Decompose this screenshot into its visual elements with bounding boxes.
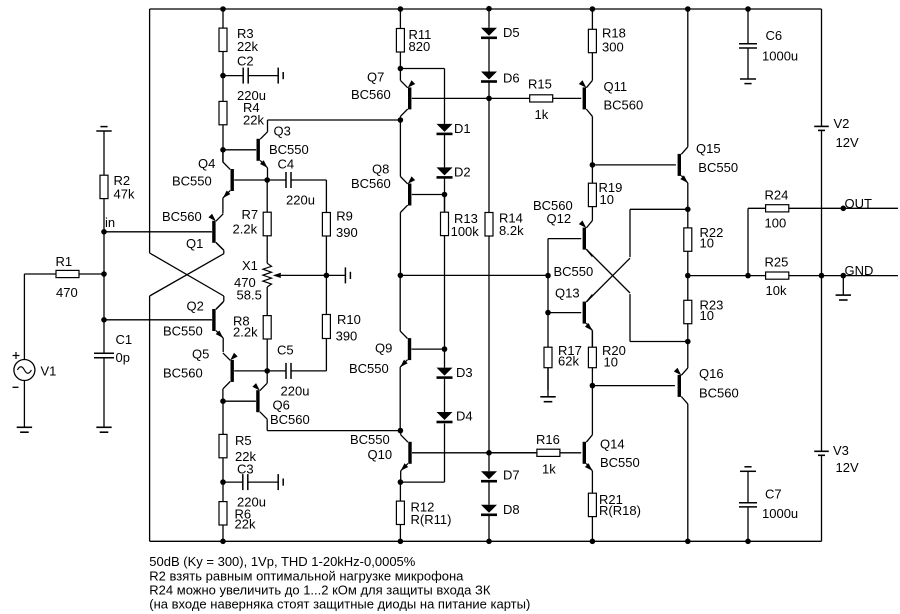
ground: [23, 381, 25, 428]
node Q5 collector to Q6 base wire: [223, 400, 256, 402]
wire mid rail to Q12/Q13 bases: [400, 274, 548, 276]
node C4/R7: [264, 177, 270, 183]
diode D2: [437, 167, 453, 175]
voltage source V2: [814, 125, 829, 127]
svg-text:R16: R16: [536, 432, 560, 447]
V1 plus mark: [13, 355, 20, 357]
capacitor C5: [267, 370, 286, 372]
svg-text:100k: 100k: [451, 224, 480, 239]
transistor Q3 BC550: [257, 139, 260, 161]
resistor R16: [489, 452, 537, 454]
resistor R7: [266, 180, 268, 212]
wire Q15 collector up to top rail: [687, 9, 689, 147]
svg-text:Q13: Q13: [555, 286, 580, 301]
svg-text:2.2k: 2.2k: [233, 222, 258, 237]
svg-text:100: 100: [765, 216, 787, 231]
svg-text:OUT: OUT: [845, 196, 873, 211]
resistor R9: [325, 180, 327, 213]
svg-text:C5: C5: [277, 343, 294, 358]
svg-text:220u: 220u: [281, 384, 310, 399]
svg-text:BC550: BC550: [600, 455, 640, 470]
svg-text:BC560: BC560: [163, 366, 203, 381]
svg-text:BC550: BC550: [554, 264, 594, 279]
wire Q8 emitter up to node: [399, 120, 401, 177]
svg-text:Q11: Q11: [604, 79, 628, 94]
resistor R10: [325, 275, 327, 314]
potentiometer X1: [263, 263, 272, 287]
wire Q3 collector up and right to Q7 collector node: [267, 120, 269, 132]
capacitor C4: [267, 179, 286, 181]
svg-text:R5: R5: [235, 433, 252, 448]
wire R11 node right and down to D1: [400, 68, 444, 70]
wire Q9 collector up to mid rail node: [399, 275, 401, 331]
transistor Q8 BC560: [408, 184, 411, 206]
capacitor C6: [747, 9, 749, 44]
wire Q7 collector down to node: [399, 116, 401, 120]
wire R14 down across mid rail to D7: [488, 275, 490, 471]
svg-text:22k: 22k: [243, 113, 264, 128]
resistor R5: [222, 401, 224, 434]
resistor R15: [489, 97, 530, 99]
svg-text:2.2k: 2.2k: [233, 324, 258, 339]
wire Q4 emitter down to Q1 emitter: [222, 198, 224, 213]
diode D7: [481, 471, 497, 479]
svg-text:390: 390: [336, 329, 358, 344]
transistor Q2 BC550: [212, 309, 215, 331]
svg-text:1k: 1k: [535, 107, 549, 122]
svg-text:Q4: Q4: [198, 156, 215, 171]
wire Q10 emitter down to R12: [400, 471, 402, 482]
svg-text:C3: C3: [237, 462, 254, 477]
wire Q15 emitter down to node: [687, 183, 689, 209]
svg-text:X1: X1: [242, 258, 258, 273]
svg-text:R25: R25: [765, 255, 789, 270]
transistor Q15 BC550: [678, 154, 681, 176]
resistor R8: [266, 287, 268, 316]
svg-text:D2: D2: [454, 165, 471, 180]
wire Q9 emitter down to Q10 collector: [399, 367, 401, 431]
ground: [547, 368, 549, 397]
wire Q9 base right to D3 node: [412, 348, 445, 350]
svg-text:V1: V1: [41, 364, 57, 379]
svg-text:BC550: BC550: [172, 174, 212, 189]
svg-text:BC550: BC550: [269, 142, 309, 157]
svg-text:R(R11): R(R11): [411, 512, 452, 527]
node in: wire to Q1 base: [104, 231, 212, 233]
resistor R17: [547, 346, 549, 348]
wire Q6 emitter up to node: [266, 371, 268, 383]
resistor R11: [399, 9, 401, 29]
capacitor C3: [223, 481, 243, 483]
wire Q12 collector cross diagonal to right column: [586, 249, 630, 293]
wire Q12/Q13 base link down to Q13 base: [547, 276, 549, 313]
resistor R3: [222, 9, 224, 28]
svg-text:R10: R10: [337, 312, 361, 327]
resistor R14: [488, 98, 490, 212]
wire input node to Q2 base: [104, 319, 212, 321]
wire Q13 collector cross diagonal up to right column: [586, 258, 630, 302]
wire Q8 base right to D2 node: [412, 194, 445, 196]
svg-text:BC560: BC560: [351, 87, 391, 102]
svg-text:BC560: BC560: [162, 209, 202, 224]
transistor Q13 BC550: [583, 302, 586, 324]
svg-text:D5: D5: [503, 25, 520, 40]
svg-text:10: 10: [700, 236, 714, 251]
svg-text:8.2k: 8.2k: [499, 223, 524, 238]
wire Q16 collector down to bottom rail: [687, 404, 689, 541]
resistor R19: [591, 165, 593, 183]
svg-text:470: 470: [56, 285, 78, 300]
capacitor C7: [744, 466, 751, 468]
wire Q13 emitter down to R20: [591, 331, 593, 348]
svg-text:820: 820: [409, 39, 431, 54]
svg-text:(на входе наверняка стоят защи: (на входе наверняка стоят защитные диоды…: [149, 597, 530, 612]
svg-text:10: 10: [700, 308, 714, 323]
svg-text:1000u: 1000u: [762, 506, 798, 521]
transistor Q4 BC550: [231, 169, 234, 191]
svg-text:R7: R7: [242, 207, 259, 222]
svg-text:300: 300: [602, 40, 624, 55]
resistor R21: [591, 471, 593, 493]
svg-text:D6: D6: [503, 71, 520, 86]
svg-text:C7: C7: [765, 487, 782, 502]
svg-text:Q7: Q7: [367, 69, 384, 84]
svg-text:47k: 47k: [114, 187, 135, 202]
svg-text:Q16: Q16: [699, 366, 724, 381]
svg-text:R9: R9: [336, 209, 353, 224]
resistor R22: [687, 209, 689, 228]
svg-text:R2 взять равным оптимальной на: R2 взять равным оптимальной нагрузке мик…: [149, 569, 464, 584]
resistor R23: [687, 276, 689, 301]
capacitor C2: [223, 75, 243, 77]
wire Q5 collector down to node: [222, 389, 224, 401]
resistor R12: [399, 482, 401, 501]
wire right rail: [821, 9, 823, 126]
svg-text:R15: R15: [528, 77, 552, 92]
svg-text:D4: D4: [456, 409, 473, 424]
svg-text:Q3: Q3: [274, 124, 291, 139]
diode D8: [481, 505, 497, 513]
wire R17 column: [547, 313, 549, 348]
wire Q7 base right to D6 node: [412, 97, 489, 99]
svg-text:D3: D3: [456, 365, 473, 380]
svg-text:C6: C6: [766, 28, 783, 43]
ground: [103, 414, 105, 427]
wire Q8 collector down to mid rail: [399, 213, 401, 276]
svg-text:R24 можно увеличить до 1...2 к: R24 можно увеличить до 1...2 кОм для защ…: [149, 583, 491, 598]
svg-text:Q6: Q6: [273, 397, 290, 412]
wire GND rail: [688, 275, 898, 277]
svg-text:GND: GND: [845, 263, 874, 278]
wire Q10 base right to R16: [412, 452, 537, 454]
wire Q2 emitter down to Q5 emitter: [222, 338, 224, 352]
svg-text:12V: 12V: [836, 460, 859, 475]
svg-text:50dB (Ky = 300), 1Vp, THD 1-20: 50dB (Ky = 300), 1Vp, THD 1-20kHz-0,0005…: [149, 554, 415, 569]
diode D5: [481, 28, 497, 36]
wire D3 node: [444, 349, 446, 368]
svg-text:V3: V3: [833, 443, 849, 458]
wire Q11 collector down to node: [591, 116, 593, 164]
transistor Q10 BC550: [408, 442, 411, 464]
svg-text:Q9: Q9: [375, 341, 392, 356]
voltage source V3: [814, 450, 829, 452]
wire left frame top section (to Q2 collector): [149, 9, 151, 253]
wire bottom supply rail: [150, 540, 822, 542]
svg-text:1k: 1k: [542, 462, 556, 477]
transistor Q11 BC560: [583, 87, 586, 109]
transistor Q1 BC560: [212, 221, 215, 243]
svg-text:BC550: BC550: [698, 160, 738, 175]
resistor R4: [222, 76, 224, 102]
wire node A to Q3 base: [223, 149, 256, 151]
transistor Q16 BC560: [678, 375, 681, 397]
wire Q6 collector down then right to Q10 collector node: [266, 419, 268, 430]
node R8/C5/Q5 base: [264, 368, 270, 374]
wire Q7 emitter to node: [399, 69, 401, 81]
svg-text:10: 10: [600, 192, 614, 207]
svg-text:Q8: Q8: [372, 162, 389, 177]
svg-text:C4: C4: [278, 157, 295, 172]
svg-text:58.5: 58.5: [237, 288, 262, 303]
resistor R6: [222, 482, 224, 502]
svg-text:Q5: Q5: [192, 347, 209, 362]
wire Q10 collector up to node: [400, 431, 402, 435]
diode D4: [437, 412, 453, 420]
svg-text:R(R18): R(R18): [599, 503, 641, 518]
ground: [842, 276, 844, 296]
node dots input column: [101, 229, 107, 235]
svg-text:R18: R18: [602, 26, 626, 41]
transistor Q9 BC550: [408, 338, 411, 360]
svg-text:220u: 220u: [286, 193, 315, 208]
wire Q5 base to node: [234, 370, 267, 372]
wire D4 branch to Q10 emitter node: [444, 424, 446, 483]
svg-text:V2: V2: [834, 116, 850, 131]
wire node A: [222, 150, 224, 163]
svg-text:Q12: Q12: [547, 211, 572, 226]
svg-text:390: 390: [336, 225, 358, 240]
resistor R13: [444, 195, 446, 213]
diode D6: [481, 72, 497, 80]
svg-text:C2: C2: [237, 54, 254, 69]
wire R2 to input node column: [103, 231, 105, 320]
wire top supply rail: [150, 8, 822, 10]
svg-text:D7: D7: [503, 468, 520, 483]
transistor Q6 BC560: [256, 390, 259, 412]
wire left frame bottom section (from Q1 collector): [216, 242, 224, 250]
diode D1: [437, 124, 453, 132]
X1 wiper terminal: [326, 274, 345, 276]
wire Q14 collector up to node: [591, 386, 593, 435]
svg-text:Q2: Q2: [187, 299, 204, 314]
svg-text:R1: R1: [56, 254, 73, 269]
resistor R2: [103, 131, 105, 175]
svg-text:12V: 12V: [836, 135, 859, 150]
svg-text:in: in: [105, 215, 115, 230]
svg-text:D1: D1: [454, 121, 471, 136]
resistor R24: [766, 205, 789, 212]
svg-text:BC550: BC550: [163, 324, 203, 339]
resistor R1: [24, 273, 56, 275]
svg-text:0p: 0p: [116, 350, 130, 365]
transistor Q14 BC550: [583, 442, 586, 464]
wire node to Q15 base: [592, 164, 676, 166]
svg-text:BC560: BC560: [604, 98, 644, 113]
svg-text:BC560: BC560: [351, 176, 391, 191]
wire Q16 emitter up to node: [687, 342, 689, 368]
svg-text:22k: 22k: [235, 517, 256, 532]
svg-text:D8: D8: [503, 502, 520, 517]
wire top rail to D5: [488, 9, 490, 28]
resistor R25: [766, 272, 789, 279]
transistor Q12 BC560: [583, 228, 586, 250]
svg-text:1000u: 1000u: [762, 49, 798, 64]
svg-text:Q1: Q1: [186, 236, 203, 251]
svg-text:Q15: Q15: [696, 141, 721, 156]
wire Q4 base to node: [234, 179, 267, 181]
svg-text:BC560: BC560: [270, 412, 310, 427]
transistor Q5 BC560: [231, 360, 234, 382]
wire OUT: [748, 207, 898, 209]
svg-text:10k: 10k: [766, 283, 787, 298]
wire Q13 base: [548, 312, 581, 314]
svg-text:62k: 62k: [558, 354, 579, 369]
svg-text:10: 10: [604, 355, 618, 370]
svg-text:C1: C1: [116, 332, 133, 347]
V1 minus mark: [13, 386, 19, 388]
svg-text:BC560: BC560: [699, 386, 739, 401]
wire node to Q16 base: [592, 385, 675, 387]
wire Q3 emitter down to node: [267, 168, 269, 180]
svg-text:R24: R24: [765, 188, 789, 203]
svg-text:BC550: BC550: [350, 432, 390, 447]
diode D3: [437, 368, 453, 376]
capacitor C1: [103, 320, 105, 353]
resistor R18: [591, 9, 593, 29]
X1 wiper arrow: [280, 274, 326, 276]
wire Q12 base left and down: [548, 238, 581, 240]
transistor Q7 BC560: [408, 87, 411, 109]
resistor R20: [591, 331, 593, 348]
power tap above R2: [100, 126, 107, 128]
svg-text:22k: 22k: [237, 39, 258, 54]
wire Q4 collector to node A: [222, 150, 224, 162]
svg-text:BC550: BC550: [349, 361, 389, 376]
svg-text:Q14: Q14: [600, 437, 625, 452]
svg-text:Q10: Q10: [368, 447, 393, 462]
voltage source V1: [14, 360, 35, 381]
